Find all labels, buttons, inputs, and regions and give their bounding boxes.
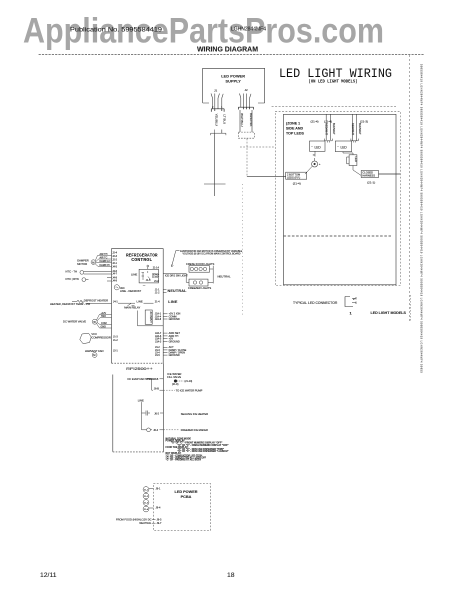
watermark AppliancePartsPros.com	[23, 12, 384, 51]
NTC TH sensor	[80, 271, 112, 275]
module 3 bracket	[347, 157, 350, 164]
svg-text:J6-4: J6-4	[153, 429, 158, 432]
svg-text:LINE - DEFROST: LINE - DEFROST	[120, 289, 142, 293]
svg-text:FREEZER LIGHTS: FREEZER LIGHTS	[188, 286, 211, 290]
svg-text:~: ~	[337, 145, 339, 149]
svg-text:PCBA: PCBA	[181, 495, 192, 499]
svg-text:(21-4): (21-4)	[311, 120, 319, 124]
svg-text:FRESH FOOD LIGHTS: FRESH FOOD LIGHTS	[186, 262, 214, 266]
svg-text:MOTOR: MOTOR	[77, 262, 87, 266]
connector J2 pins	[240, 94, 252, 108]
svg-text:DAMP-HI: DAMP-HI	[100, 264, 110, 267]
svg-text:J4-9: J4-9	[112, 280, 117, 283]
svg-text:J9-4: J9-4	[156, 507, 161, 510]
fold line right	[409, 55, 411, 321]
2 bottom LEDs box	[286, 172, 307, 179]
svg-text:FREEZER ICE MAKER: FREEZER ICE MAKER	[181, 428, 208, 432]
svg-text:LINE: LINE	[138, 399, 144, 403]
wire dotted drop from J2	[241, 184, 243, 316]
svg-text:J1: J1	[214, 88, 218, 92]
zone divider dashed	[284, 235, 392, 237]
LED PCBA box dashed	[154, 484, 211, 531]
AC input sub box	[145, 310, 152, 324]
circle labels	[144, 489, 149, 511]
svg-text:J2A-3: J2A-3	[155, 340, 162, 343]
svg-text:CONTROL: CONTROL	[131, 257, 152, 263]
svg-text:NEUTRAL: NEUTRAL	[218, 275, 231, 279]
typical connector symbol	[345, 297, 356, 307]
left pin labels column	[112, 252, 117, 283]
svg-text:5995584419 LGHN2844MF4 59955: 5995584419 LGHN2844MF4 5995584419 LGHN28…	[420, 64, 423, 373]
svg-text:YEL/BLU: YEL/BLU	[214, 114, 218, 126]
svg-text:GROUND: GROUND	[169, 354, 180, 357]
svg-text:LT BLU: LT BLU	[222, 114, 226, 124]
svg-text:TO ICE WATER PUMP: TO ICE WATER PUMP	[176, 388, 203, 392]
svg-text:J9-7: J9-7	[157, 522, 162, 525]
svg-text:J4-7: J4-7	[112, 273, 117, 276]
ice maker fill valve label	[167, 372, 181, 379]
svg-text:(ON LED LIGHT MODELS): (ON LED LIGHT MODELS)	[309, 79, 358, 84]
svg-text:21-3: 21-3	[144, 502, 149, 504]
closed harness label	[362, 171, 375, 178]
left edge short stubs	[107, 278, 112, 282]
fresh food lamps	[190, 267, 207, 270]
svg-text:1: 1	[221, 106, 223, 109]
freezer lamps	[193, 281, 202, 284]
capacitor stub	[142, 411, 151, 416]
svg-text:SEALING ICE HEATER: SEALING ICE HEATER	[181, 412, 208, 416]
2 bottom LEDs label	[287, 172, 300, 179]
svg-text:21-4: 21-4	[155, 300, 160, 303]
damper motor circle	[91, 260, 96, 265]
svg-text:H2O: H2O	[101, 315, 106, 318]
water valve wires	[97, 314, 112, 328]
wire harness to right edge	[379, 173, 401, 175]
svg-text:LED: LED	[341, 145, 348, 149]
pin labels group C inside	[155, 346, 160, 357]
svg-text:RED/WHT: RED/WHT	[325, 123, 329, 136]
svg-text:AC INPUT: AC INPUT	[149, 312, 152, 324]
inner divider line	[138, 311, 164, 326]
transformer circle	[114, 285, 119, 290]
LED power supply label	[221, 75, 245, 84]
svg-text:W: W	[93, 320, 96, 324]
svg-text:12/11: 12/11	[40, 572, 57, 579]
fresh food lights box	[189, 266, 210, 273]
LED lamp circle	[312, 161, 318, 167]
svg-text:LED: LED	[354, 157, 358, 162]
damper wires	[95, 256, 111, 267]
svg-text:FILL VALVE: FILL VALVE	[167, 375, 181, 379]
evaporator fan note	[180, 250, 242, 256]
VCC compressor label	[91, 332, 110, 339]
svg-text:J4-1: J4-1	[113, 300, 118, 303]
wire from J1 down	[211, 130, 226, 197]
svg-text:21-4: 21-4	[144, 509, 149, 511]
svg-text:Publication No. 5995584419: Publication No. 5995584419	[70, 27, 162, 34]
svg-text:EVAPORATOR FAN MOTOR IS OPERAT: EVAPORATOR FAN MOTOR IS OPERATED BY VARI…	[180, 250, 242, 253]
defrost wires	[87, 302, 112, 304]
bottom stub component	[142, 428, 153, 432]
svg-text:J1-2: J1-2	[113, 339, 118, 342]
wire module2 to module3	[343, 152, 353, 155]
strip 1 pin bracket	[325, 139, 333, 143]
svg-text:LED: LED	[315, 145, 322, 149]
svg-text:J9-1: J9-1	[156, 488, 161, 491]
svg-text:WIRING DIAGRAM: WIRING DIAGRAM	[197, 46, 258, 53]
svg-text:HARNESS: HARNESS	[362, 174, 375, 178]
strip 2 pin bracket	[351, 139, 358, 143]
wire dashed to LED box	[240, 146, 275, 148]
svg-text:VOLTAGE (8-16V DC) FROM MAIN C: VOLTAGE (8-16V DC) FROM MAIN CONTROL BOA…	[183, 253, 241, 256]
wires J2 down	[240, 110, 252, 132]
NTC RTN sensor	[82, 278, 89, 282]
right stubs group C	[163, 347, 167, 355]
right stubs group A	[163, 314, 167, 319]
svg-text:FROM FOOD (HIGH) (12V DC: FROM FOOD (HIGH) (12V DC	[116, 517, 152, 521]
svg-text:SIDE AND: SIDE AND	[286, 127, 303, 131]
svg-text:"C" OF - PADDING AT ALL BODY: "C" OF - PADDING AT ALL BODY	[166, 459, 202, 462]
svg-text:GND: GND	[101, 326, 107, 329]
svg-text:NTC - TH: NTC - TH	[66, 270, 78, 274]
svg-text:J1-2: J1-2	[155, 291, 160, 294]
svg-text:J6-B: J6-B	[154, 387, 159, 390]
group A labels	[169, 313, 181, 321]
svg-text:J1-5: J1-5	[146, 279, 151, 282]
svg-text:COMPRESSOR: COMPRESSOR	[91, 335, 110, 339]
svg-text:GROUND: GROUND	[169, 340, 180, 343]
svg-text:(21-10): (21-10)	[185, 380, 193, 383]
svg-text:(21-1): (21-1)	[367, 181, 375, 185]
left pins lower	[113, 335, 118, 352]
harvest fan motor	[92, 353, 97, 358]
svg-text:J2A-8: J2A-8	[155, 318, 162, 321]
svg-text:2: 2	[212, 106, 214, 109]
svg-text:TOP LEDS: TOP LEDS	[286, 132, 304, 136]
svg-text:LEDS (F.F.): LEDS (F.F.)	[287, 175, 300, 179]
svg-text:21-8: 21-8	[154, 280, 159, 283]
pin labels group B inside	[155, 332, 162, 343]
svg-text:NEUTRAL: NEUTRAL	[139, 521, 152, 525]
svg-text:HEATER, DEFROST TERM - 555: HEATER, DEFROST TERM - 555	[50, 302, 91, 306]
main relay symbol	[128, 303, 135, 305]
refrigerator control title	[126, 252, 158, 263]
svg-text:SUPPLY: SUPPLY	[225, 80, 241, 84]
connector J1 header bar	[211, 109, 224, 112]
svg-text:MAIN RELAY: MAIN RELAY	[124, 306, 140, 310]
svg-text:LINE: LINE	[168, 300, 178, 304]
svg-text:M: M	[92, 260, 94, 264]
PCBA title	[175, 490, 198, 499]
neutral feed label	[139, 521, 162, 525]
connector bracket dashed	[238, 132, 254, 138]
svg-text:18: 18	[227, 572, 235, 579]
PCBA connector circles	[143, 487, 149, 512]
svg-text:NEUTRAL: NEUTRAL	[168, 289, 188, 293]
LED power supply box	[203, 68, 265, 103]
LED module 1 symbol	[311, 145, 321, 150]
damper motor label	[77, 259, 89, 266]
svg-text:RFI2500++: RFI2500++	[126, 367, 153, 371]
svg-text:(21-9): (21-9)	[172, 383, 179, 386]
water valve circle	[92, 319, 97, 324]
svg-text:LED POWER: LED POWER	[221, 75, 245, 79]
LED module 1 box	[310, 141, 326, 151]
refrigerator control box	[112, 249, 164, 364]
group B labels	[169, 332, 181, 343]
right stubs J1 pair	[163, 290, 166, 293]
stub J9-1	[149, 488, 161, 491]
note arrow	[172, 251, 180, 267]
LED module 3 box	[349, 155, 357, 166]
LED zone outer dashed box	[275, 111, 400, 285]
fill valve symbol	[174, 380, 183, 383]
header rule bottom	[39, 53, 425, 55]
wire module1 to lamp	[314, 151, 316, 161]
bottom stub wire right	[160, 429, 164, 431]
closed harness box	[361, 171, 378, 178]
relay side labels	[143, 273, 160, 287]
pin labels J1-1 J1-2	[155, 288, 160, 294]
svg-text:LED POWER: LED POWER	[175, 490, 198, 494]
header publication number	[70, 27, 266, 34]
from food feed label	[116, 517, 162, 521]
svg-text:—: —	[143, 284, 146, 287]
svg-text:2: 2	[353, 297, 355, 301]
compressor outline	[80, 333, 91, 344]
right pin labels J2A	[155, 313, 162, 321]
svg-text:21-2: 21-2	[144, 496, 149, 498]
wire junction tick	[204, 183, 226, 185]
svg-text:≈: ≈	[313, 153, 315, 157]
wire pair 2 from top	[353, 114, 357, 141]
svg-text:HARVEST FAN: HARVEST FAN	[85, 349, 104, 353]
svg-text:(21-4): (21-4)	[293, 182, 301, 186]
lights bus vertical	[208, 266, 213, 284]
svg-text:DAMP-LO: DAMP-LO	[100, 260, 111, 263]
right stubs group B	[163, 333, 167, 341]
svg-text:LINE: LINE	[131, 273, 137, 277]
svg-text:J3-B: J3-B	[153, 378, 158, 381]
wire to ice water pump	[163, 389, 175, 391]
relay internal contacts	[142, 271, 151, 280]
svg-text:M: M	[93, 353, 95, 357]
line wire inside	[118, 302, 154, 304]
capacitor wire right	[160, 412, 163, 414]
wire module3 to harness	[353, 166, 361, 176]
svg-text:J2: J2	[245, 88, 249, 92]
svg-text:LINE: LINE	[137, 300, 143, 304]
wire pair 1 from top	[326, 114, 331, 140]
J6-B stub	[152, 379, 164, 391]
svg-text:LED LIGHT WIRING: LED LIGHT WIRING	[279, 67, 392, 81]
DC fan speed stub	[128, 377, 164, 381]
svg-text:+: +	[319, 162, 321, 166]
wire to 2-bottom-LED box	[247, 176, 286, 178]
svg-text:WHT/BLU: WHT/BLU	[240, 113, 244, 127]
svg-text:LED LIGHT MODELS: LED LIGHT MODELS	[371, 311, 407, 315]
RFI vertical wire	[141, 402, 143, 430]
water valve wire labels	[101, 312, 107, 329]
wire ICE DRS SW LIGHT	[163, 273, 189, 282]
wire top feed to box	[272, 105, 396, 107]
svg-text:BLK/WHT: BLK/WHT	[358, 123, 362, 135]
fold microtext column	[420, 64, 423, 373]
relay box pin top	[147, 267, 149, 269]
svg-text:NTC | RTN: NTC | RTN	[66, 277, 79, 281]
svg-text:J4-5: J4-5	[112, 266, 117, 269]
group C labels	[169, 346, 187, 357]
svg-text:RED/WHT: RED/WHT	[351, 123, 355, 136]
svg-text:J3-5: J3-5	[155, 354, 160, 357]
svg-text:1: 1	[350, 311, 353, 316]
stub J9-4	[149, 507, 161, 510]
svg-text:"O" OF "C" - NON FAN DISPENSER: "O" OF "C" - NON FAN DISPENSER "LAUNCH"	[177, 450, 228, 453]
svg-text:J2-1: J2-1	[113, 349, 118, 352]
svg-text:(21d)~: (21d)~	[152, 276, 160, 279]
wire lamp to bottom box	[305, 167, 312, 175]
svg-text:DC WATER VALVE: DC WATER VALVE	[63, 320, 86, 324]
svg-text:J1-3: J1-3	[113, 335, 118, 338]
freezer lights box	[189, 279, 208, 286]
svg-text:BLK/WHT: BLK/WHT	[332, 123, 336, 135]
svg-text:GROUND: GROUND	[169, 318, 180, 321]
LED zone inner box	[284, 114, 397, 284]
LED module 2 symbol	[337, 145, 347, 149]
svg-text:J6-2: J6-2	[154, 412, 159, 415]
connector J1 pins	[211, 94, 223, 109]
zone label	[286, 122, 304, 136]
RFI box	[113, 363, 164, 452]
svg-text:21-1: 21-1	[144, 489, 149, 491]
svg-text:~: ~	[311, 145, 313, 149]
damper wire labels	[100, 253, 111, 267]
dashed vert right of caption	[409, 295, 411, 321]
LED module 2 box	[335, 141, 351, 152]
wire down to bottom LED feed	[246, 139, 248, 177]
svg-text:LGHN2844MF4: LGHN2844MF4	[231, 27, 266, 33]
svg-text:21-14: 21-14	[153, 267, 160, 270]
svg-text:BRN/PNK: BRN/PNK	[249, 113, 253, 126]
svg-text:J9-5: J9-5	[157, 518, 162, 521]
svg-text:TYPICAL LED CONNECTOR: TYPICAL LED CONNECTOR	[293, 301, 338, 305]
wire to freezer ice maker	[163, 429, 179, 431]
svg-text:(ZONE 1: (ZONE 1	[286, 122, 300, 126]
defrost heater resistor	[72, 300, 83, 304]
svg-text:ICE DRS SW LIGHT: ICE DRS SW LIGHT	[165, 275, 188, 278]
inner relay box	[139, 269, 158, 283]
connector J2 header bar	[238, 107, 253, 109]
